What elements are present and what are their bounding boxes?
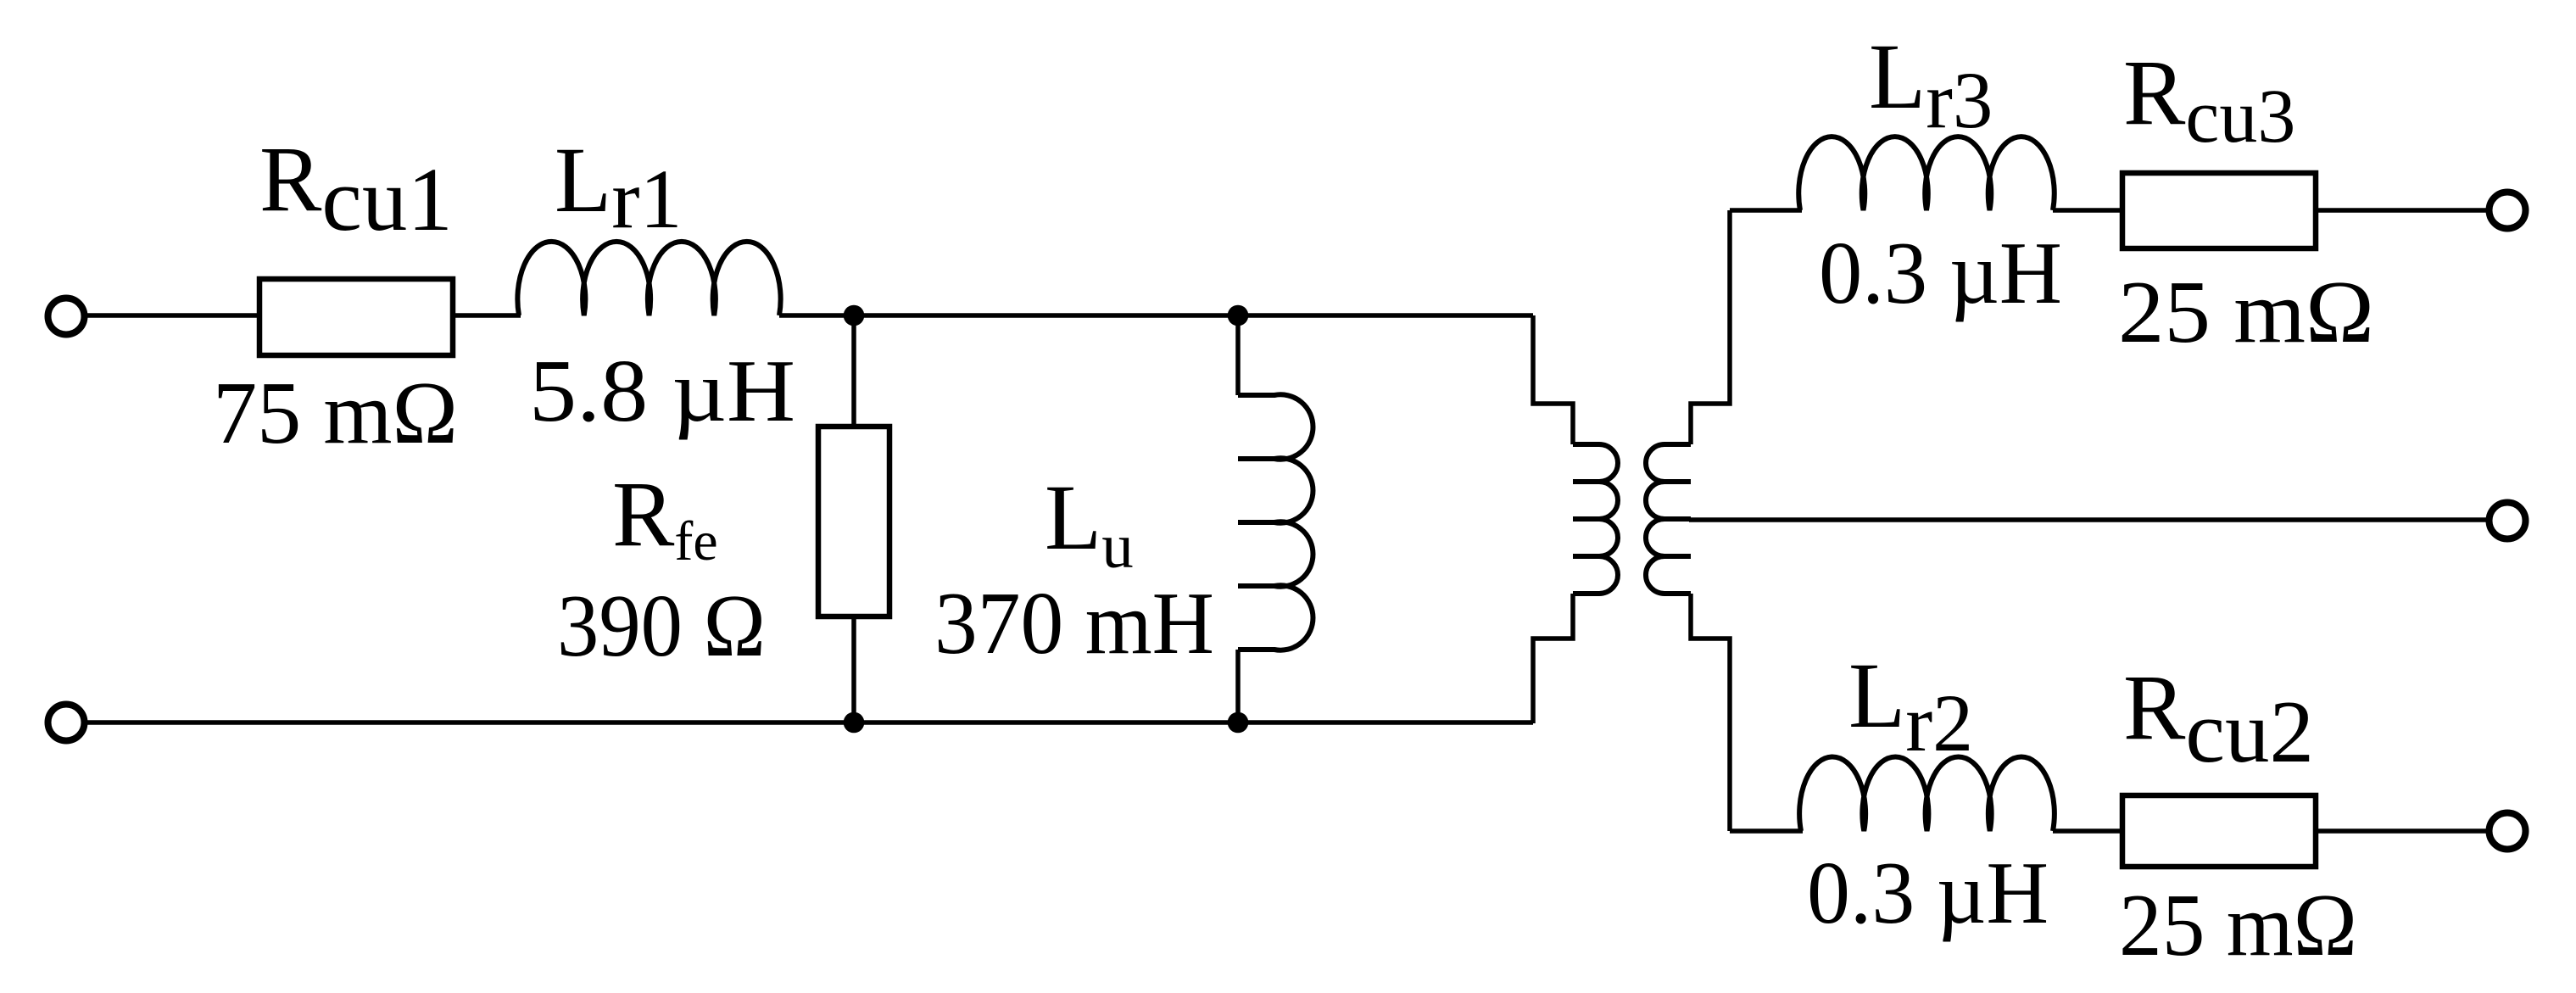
node B junction dot top	[1228, 305, 1249, 326]
node A junction dot top	[844, 305, 865, 326]
resistor Rcu2	[2122, 795, 2316, 867]
svg-text:25 mΩ: 25 mΩ	[2119, 875, 2357, 974]
wire transformer primary bottom step	[1533, 594, 1573, 723]
terminal secondary middle	[2490, 503, 2526, 539]
svg-text:390 Ω: 390 Ω	[557, 576, 766, 675]
wire secondary bottom to Lr2	[1730, 828, 1803, 834]
inductor Lr3	[1798, 137, 2055, 210]
transformer secondary winding	[1646, 444, 1691, 594]
inductor Lr2	[1799, 756, 2055, 831]
svg-text:Lr1: Lr1	[555, 128, 683, 246]
terminal primary input top	[48, 298, 85, 335]
node junction dot bottom left	[844, 712, 865, 734]
svg-text:0.3 µH: 0.3 µH	[1807, 843, 2049, 942]
wire bottom rail	[87, 720, 1533, 725]
svg-text:75 mΩ: 75 mΩ	[213, 363, 458, 462]
svg-text:Lu: Lu	[1045, 466, 1134, 582]
wire Rfe branch upper	[851, 315, 856, 427]
wire Lr2 to Rcu2	[2053, 828, 2122, 834]
wire Lr3 to Rcu3	[2053, 208, 2122, 213]
wire Rfe branch lower	[851, 616, 856, 722]
svg-text:Rfe: Rfe	[612, 462, 718, 572]
resistor Rcu1	[259, 279, 453, 355]
resistor Rfe	[818, 427, 889, 616]
node junction dot bottom right	[1228, 712, 1249, 734]
wire Rcu3 to top terminal	[2316, 208, 2487, 213]
svg-text:25 mΩ: 25 mΩ	[2118, 262, 2374, 361]
svg-text:Lr3: Lr3	[1869, 25, 1993, 145]
wire Lu branch lower	[1235, 650, 1241, 722]
terminal secondary top	[2490, 192, 2526, 229]
terminal primary input bottom	[48, 705, 85, 741]
svg-text:370 mH: 370 mH	[934, 573, 1214, 672]
svg-text:Rcu2: Rcu2	[2123, 655, 2314, 781]
svg-text:Rcu1: Rcu1	[259, 127, 453, 250]
svg-text:Lr2: Lr2	[1848, 644, 1973, 768]
wire top rail Lr1 to transformer	[779, 313, 1533, 318]
wire Lu branch upper	[1235, 315, 1241, 395]
wire secondary center tap	[1689, 517, 2487, 522]
wire transformer primary top step	[1533, 315, 1573, 444]
wire secondary top to Lr3	[1730, 208, 1802, 213]
svg-text:Rcu3: Rcu3	[2123, 41, 2295, 159]
wire Rcu2 to bottom terminal	[2316, 828, 2486, 834]
resistor Rcu3	[2122, 173, 2316, 248]
wire Rcu1 to Lr1	[453, 313, 521, 318]
transformer primary winding	[1573, 444, 1618, 594]
wire transformer secondary bottom step	[1691, 594, 1730, 831]
inductor Lr1	[517, 242, 780, 315]
svg-text:0.3 µH: 0.3 µH	[1819, 223, 2062, 322]
svg-text:5.8 µH: 5.8 µH	[529, 341, 795, 440]
terminal secondary bottom	[2490, 813, 2526, 850]
wire input top to Rcu1	[87, 313, 261, 318]
wire transformer secondary top step	[1691, 210, 1730, 444]
inductor Lu	[1238, 394, 1313, 650]
